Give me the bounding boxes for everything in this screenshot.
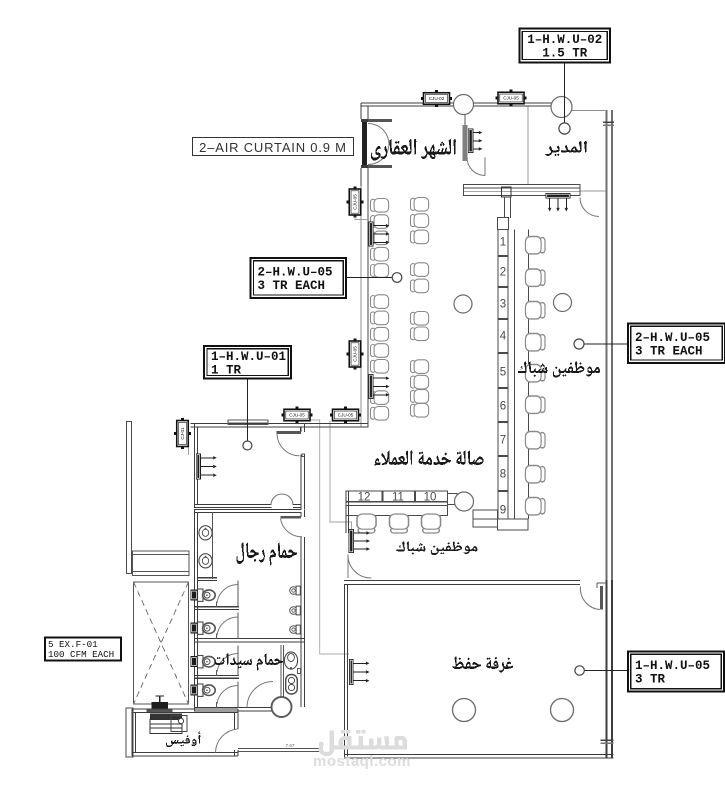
svg-text:3 TR EACH: 3 TR EACH: [635, 344, 703, 358]
svg-text:CJU-05: CJU-05: [353, 346, 358, 362]
svg-text:4: 4: [500, 331, 507, 343]
svg-text:CJU-05: CJU-05: [353, 194, 358, 210]
svg-text:1–H.W.U–01: 1–H.W.U–01: [211, 350, 286, 364]
svg-text:2: 2: [500, 267, 506, 279]
svg-text:CJU-05: CJU-05: [338, 413, 354, 418]
svg-text:2–H.W.U–05: 2–H.W.U–05: [635, 331, 710, 345]
svg-text:1–H.W.U–05: 1–H.W.U–05: [635, 659, 710, 673]
svg-text:CJ-01: CJ-01: [180, 427, 185, 440]
svg-text:7.67: 7.67: [286, 743, 295, 748]
svg-text:2–H.W.U–05: 2–H.W.U–05: [258, 266, 333, 280]
svg-text:3 TR EACH: 3 TR EACH: [258, 279, 326, 293]
svg-text:1–H.W.U–02: 1–H.W.U–02: [527, 33, 602, 47]
svg-text:1.5 TR: 1.5 TR: [542, 47, 588, 61]
svg-text:CJU-05: CJU-05: [289, 413, 305, 418]
svg-text:5: 5: [500, 367, 506, 379]
svg-text:CJU-05: CJU-05: [503, 96, 519, 101]
svg-text:10: 10: [424, 492, 437, 504]
svg-text:2–AIR CURTAIN 0.9 M: 2–AIR CURTAIN 0.9 M: [199, 140, 347, 155]
svg-text:3 TR: 3 TR: [635, 673, 666, 687]
svg-text:1 TR: 1 TR: [211, 363, 242, 377]
svg-text:12: 12: [358, 492, 371, 504]
svg-text:6: 6: [500, 401, 506, 413]
svg-text:CJU-02: CJU-02: [429, 96, 445, 101]
svg-text:100 CFM EACH: 100 CFM EACH: [48, 649, 114, 660]
svg-text:8: 8: [500, 469, 506, 481]
svg-text:3: 3: [500, 299, 506, 311]
svg-text:11: 11: [392, 492, 404, 504]
svg-text:1: 1: [500, 237, 506, 249]
svg-text:9: 9: [500, 505, 506, 517]
svg-text:7: 7: [500, 435, 506, 447]
